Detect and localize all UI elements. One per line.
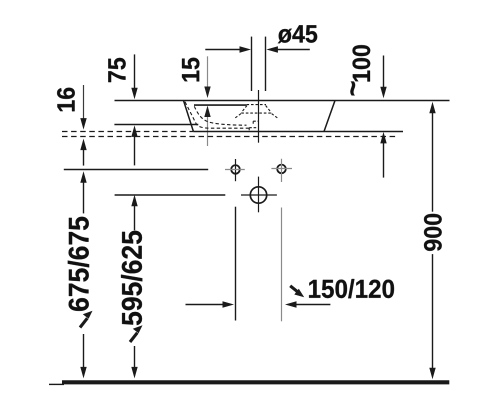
dimension arrow line left of ø45 — [205, 49, 241, 51]
dimension line 15 upper arrow grey — [207, 56, 209, 89]
dimension line 75 lower arrow — [134, 134, 136, 165]
dimension label 595/625 — [121, 231, 142, 325]
dimension line 75 upper arrow — [134, 54, 136, 89]
washbasin outline trapezoid — [184, 101, 336, 132]
dimension line 16 upper arrow — [83, 85, 85, 120]
dimension label 75 — [108, 58, 125, 82]
dimension arrow line right of ø45 — [276, 49, 310, 51]
dimension label 675/675 — [68, 217, 89, 311]
floor line thick — [62, 380, 449, 384]
leader arrow NE for 675/675 — [80, 318, 87, 327]
extension line 150/120 left black — [235, 207, 237, 321]
drain hidden funnel mid line dashed — [241, 112, 271, 114]
drain hidden outlet step dashed — [253, 121, 258, 125]
drain hidden funnel tier2 slants dashed — [234, 114, 278, 119]
hidden dashed line level 2 full width — [62, 136, 396, 138]
drain centre height reference line 595 reference — [115, 194, 226, 196]
dimension label 16 — [57, 88, 75, 112]
dimension label 15 — [182, 58, 199, 82]
washbasin top rim extension line right — [335, 100, 450, 102]
extension line ø45 right — [265, 37, 267, 91]
dimension line 150/120 right arrow pointing left — [295, 304, 330, 306]
drain hidden funnel tier1 slants dashed — [241, 106, 271, 113]
dimension line 595 top segment with up arrow — [134, 204, 136, 231]
dimension line 675 bottom segment with down arrow at floor — [83, 334, 85, 369]
leader arrow SE for 150/120 — [290, 286, 297, 292]
dimension line ~100 upper arrow — [383, 56, 385, 89]
mounting surface line left 75 reference — [114, 124, 198, 126]
extension line ø45 left — [251, 37, 253, 91]
drain hidden outlet box dashed — [249, 128, 258, 131]
dimension line 15 lower arrow grey — [207, 114, 209, 146]
drain hidden outline top dashed — [247, 104, 267, 106]
dimension label ø45 — [278, 25, 317, 43]
leader arrow NE for 595/625 — [130, 333, 137, 342]
dimension line 900 upper segment with up arrow — [432, 111, 434, 212]
faucet hole left horizontal centre line grey — [225, 169, 245, 171]
drain centre cross horizontal — [241, 194, 277, 196]
dimension line 900 lower segment with down arrow — [432, 254, 434, 369]
faucet hole left vertical centre line — [235, 159, 237, 181]
basin interior hidden contour inner dashed — [194, 106, 246, 125]
faucet hole centre height reference line 675 reference — [64, 169, 208, 171]
dimension line 675 top segment with up arrow — [83, 180, 85, 213]
drain centre cross vertical — [258, 177, 260, 213]
dimension line 595 bottom segment with down arrow at floor — [134, 346, 136, 369]
dimension label 150/120 — [309, 279, 394, 298]
dimension line 150/120 left arrow pointing right — [186, 304, 225, 306]
floor line thin left tail — [49, 383, 64, 385]
washbasin bottom line and right extension — [193, 131, 403, 133]
centre line of drain vertical upper segment — [258, 90, 260, 143]
dimension line 16 lower arrow — [83, 147, 85, 166]
basin interior hidden contour outer dashed — [185, 102, 249, 128]
hidden dashed line level 1 left of basin — [62, 131, 193, 133]
faucet hole right circle — [277, 165, 286, 174]
washbasin top rim extension line left — [115, 100, 184, 102]
extension line 150/120 right grey — [281, 208, 283, 322]
washbasin inner rim line 15 reference — [194, 104, 246, 106]
dimension line ~100 lower arrow — [383, 141, 385, 178]
dimension label 900 — [424, 214, 442, 251]
dimension label ~100 — [350, 45, 370, 95]
faucet hole left circle — [231, 165, 240, 174]
faucet hole right centre lines grey — [271, 159, 292, 182]
drain circle — [250, 187, 266, 203]
